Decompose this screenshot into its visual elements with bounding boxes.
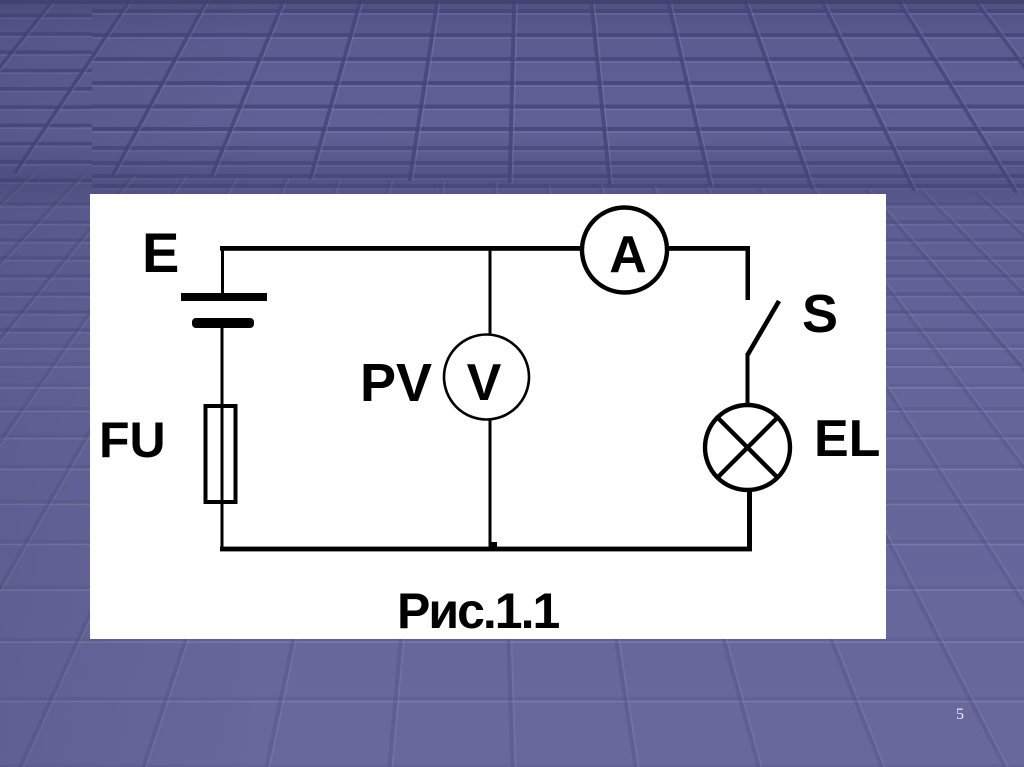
fuse FU body <box>206 406 236 502</box>
wire right vertical (to switch) <box>746 247 751 300</box>
voltmeter letter V <box>467 354 502 412</box>
svg-text:5: 5 <box>956 706 964 723</box>
battery E plate (short, negative) <box>192 318 254 328</box>
svg-text:EL: EL <box>814 410 880 468</box>
switch S lower lead <box>746 353 750 406</box>
voltmeter PV circle <box>444 335 529 420</box>
svg-text:FU: FU <box>99 412 166 468</box>
svg-text:A: A <box>609 226 647 284</box>
svg-text:E: E <box>142 221 179 284</box>
ammeter letter A <box>609 226 647 284</box>
label PV <box>360 353 432 413</box>
wire left vertical (battery to top wire) <box>221 247 224 295</box>
wire bottom horizontal <box>220 547 752 552</box>
label EL <box>814 410 880 468</box>
label FU (fuse) <box>99 412 166 468</box>
lamp EL circle <box>705 405 790 490</box>
label S <box>802 284 838 344</box>
junction nub at bottom wire <box>491 542 497 547</box>
ammeter A circle <box>582 208 667 293</box>
switch S blade <box>748 301 780 355</box>
caption Рис.1.1 <box>397 583 559 639</box>
schematic panel <box>90 194 886 639</box>
battery E plate (long, positive) <box>181 293 267 301</box>
page number 5 <box>956 706 964 723</box>
svg-text:S: S <box>802 284 838 344</box>
svg-text:PV: PV <box>360 353 432 413</box>
svg-text:Рис.1.1: Рис.1.1 <box>397 583 559 639</box>
svg-text:V: V <box>467 354 502 412</box>
wire top horizontal <box>220 246 750 251</box>
wire voltmeter branch vertical <box>489 247 492 547</box>
wire battery to fuse and through to bottom wire <box>221 328 224 550</box>
label E (battery) <box>142 221 179 284</box>
lamp EL bottom lead <box>747 488 752 550</box>
